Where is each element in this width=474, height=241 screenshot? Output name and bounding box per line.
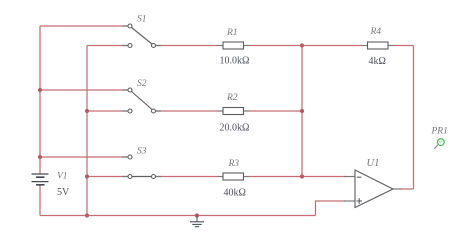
wire +5V left rail vertical (battery plus up): [39, 26, 41, 174]
node junction at +5V rail and S3 top: [38, 155, 42, 159]
node summing junction R3 op-amp: [300, 174, 304, 178]
wire summing node vertical: [301, 46, 303, 177]
wire S3 top terminal from +5V rail: [40, 156, 130, 158]
svg-text:U1: U1: [367, 158, 380, 169]
wire feedback vertical right side: [413, 46, 415, 190]
svg-text:R4: R4: [370, 27, 382, 37]
wire S1 output to R1: [156, 45, 219, 47]
wire R2 to summing node: [249, 110, 302, 112]
svg-text:5V: 5V: [57, 187, 70, 198]
svg-text:S3: S3: [137, 147, 147, 157]
node junction ground rail and S2 bottom: [85, 109, 89, 113]
switch S2: [122, 88, 161, 113]
resistor R3: [218, 173, 250, 180]
svg-text:S2: S2: [137, 79, 147, 89]
wire S3 output to R3: [156, 176, 219, 178]
wire summing node to R4: [302, 45, 362, 47]
svg-text:S1: S1: [137, 15, 147, 25]
svg-text:R1: R1: [226, 28, 238, 38]
svg-text:40kΩ: 40kΩ: [224, 188, 246, 199]
node junction ground rail and S3 bottom: [85, 174, 89, 178]
svg-text:PR1: PR1: [431, 127, 448, 137]
wire battery minus down to bottom rail: [39, 186, 41, 216]
svg-text:R2: R2: [226, 93, 238, 103]
wire S3 bottom terminal from ground rail: [87, 176, 130, 178]
switch S3: [122, 155, 161, 179]
node summing junction R1/R4: [300, 43, 304, 47]
svg-text:V1: V1: [57, 172, 68, 182]
op-amp U1: [344, 170, 401, 208]
svg-text:R3: R3: [228, 159, 240, 169]
wire R3 to summing node: [249, 176, 302, 178]
resistor R2: [218, 108, 250, 115]
wire R1 to summing node: [249, 45, 302, 47]
wire S2 top terminal from +5V rail: [40, 89, 130, 91]
wire op-amp output to feedback: [400, 188, 414, 190]
wire S2 bottom terminal from ground rail: [87, 110, 130, 112]
svg-text:10.0kΩ: 10.0kΩ: [220, 56, 250, 67]
resistor R1: [218, 42, 250, 49]
wire ground rail vertical x87: [86, 46, 88, 216]
ground: [190, 216, 204, 227]
wire op-amp noninverting input jog: [316, 201, 346, 216]
node junction at +5V rail and S2 top: [38, 88, 42, 92]
wire summing node to op-amp inverting input: [302, 176, 345, 178]
svg-text:4kΩ: 4kΩ: [369, 56, 386, 67]
node summing junction R2: [300, 109, 304, 113]
battery V1: [32, 174, 49, 185]
switch S1: [122, 24, 161, 48]
wire bottom ground rail: [40, 215, 316, 217]
wire R4 to output corner: [394, 45, 414, 47]
svg-text:20.0kΩ: 20.0kΩ: [220, 123, 250, 134]
node junction ground rail meets bottom rail: [85, 213, 89, 217]
wire +5V rail top segment to S1: [40, 25, 130, 27]
resistor R4: [362, 42, 394, 49]
probe PR1: [434, 139, 444, 149]
node junction ground symbol on bottom rail: [195, 213, 199, 217]
wire S1 bottom terminal from ground rail: [87, 45, 130, 47]
wire S2 output to R2: [156, 110, 219, 112]
